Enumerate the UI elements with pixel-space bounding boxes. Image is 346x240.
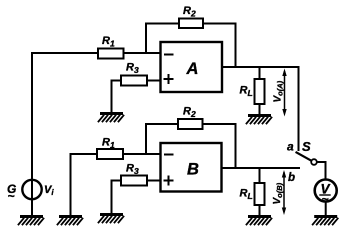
resistor RL (B) <box>255 183 265 205</box>
ground for R1(B) input <box>58 217 83 225</box>
wire R3(B) to ground <box>112 181 122 215</box>
voltmeter circle <box>315 180 337 202</box>
arrow Vo(A) <box>282 69 286 117</box>
svg-text:a: a <box>287 140 294 154</box>
wire feedback right A <box>203 24 236 68</box>
wire R1(B) to inverting node <box>123 153 161 155</box>
wire ground to R1(B) <box>71 154 98 216</box>
ground under voltmeter <box>313 217 338 225</box>
resistor R3 (B) <box>121 176 147 186</box>
wire RL(A) to ground <box>259 104 261 115</box>
wire pivot to voltmeter <box>317 162 326 179</box>
resistor R1 (A) <box>98 49 124 59</box>
resistor R3 (A) <box>121 76 147 86</box>
svg-text:b: b <box>288 172 295 184</box>
wire feedback right B <box>203 124 236 168</box>
wire RL(B) to ground <box>259 205 261 217</box>
ground under R3(B) <box>99 215 124 223</box>
resistor R2 (B) <box>178 119 203 129</box>
wire to RL(B) <box>259 168 261 183</box>
wire R3(A) to plus input <box>147 80 161 82</box>
plus input B <box>165 177 173 185</box>
label V in voltmeter <box>320 181 331 206</box>
switch pivot circle <box>311 159 317 165</box>
wire output A to switch contact a <box>222 67 299 150</box>
label Vo(A) <box>273 80 285 102</box>
switch blade <box>297 153 312 161</box>
ground under R3(A) <box>99 114 124 122</box>
ground under RL(A) <box>247 116 272 124</box>
resistor RL (A) <box>255 79 265 104</box>
wire R3(B) to plus input <box>147 180 161 182</box>
svg-text:B: B <box>187 161 199 179</box>
minus input B <box>165 154 173 156</box>
resistor R2 (A) <box>179 19 203 29</box>
svg-text:S: S <box>302 139 311 154</box>
arrow Vo(B) <box>282 170 286 215</box>
wire source to R1(A) input <box>32 53 98 216</box>
resistor R1 (B) <box>97 149 123 159</box>
svg-text:A: A <box>186 60 199 78</box>
wire voltmeter to ground <box>325 202 327 217</box>
op-amp B box <box>161 143 222 192</box>
wire to RL(A) <box>259 67 261 79</box>
wire feedback left A <box>146 24 179 54</box>
ground under source <box>19 217 44 225</box>
label Vo(B) <box>272 182 284 204</box>
wire output B to contact b <box>222 167 300 169</box>
minus input A <box>165 54 173 56</box>
wire feedback left B <box>146 124 178 154</box>
plus input A <box>165 75 173 83</box>
op-amp A box <box>161 42 223 92</box>
wire R1(A) to inverting node <box>124 52 161 54</box>
svg-text:~: ~ <box>8 189 15 203</box>
wire R3(A) to ground <box>112 81 122 114</box>
source G circle <box>22 180 41 199</box>
ground under RL(B) <box>247 217 272 225</box>
